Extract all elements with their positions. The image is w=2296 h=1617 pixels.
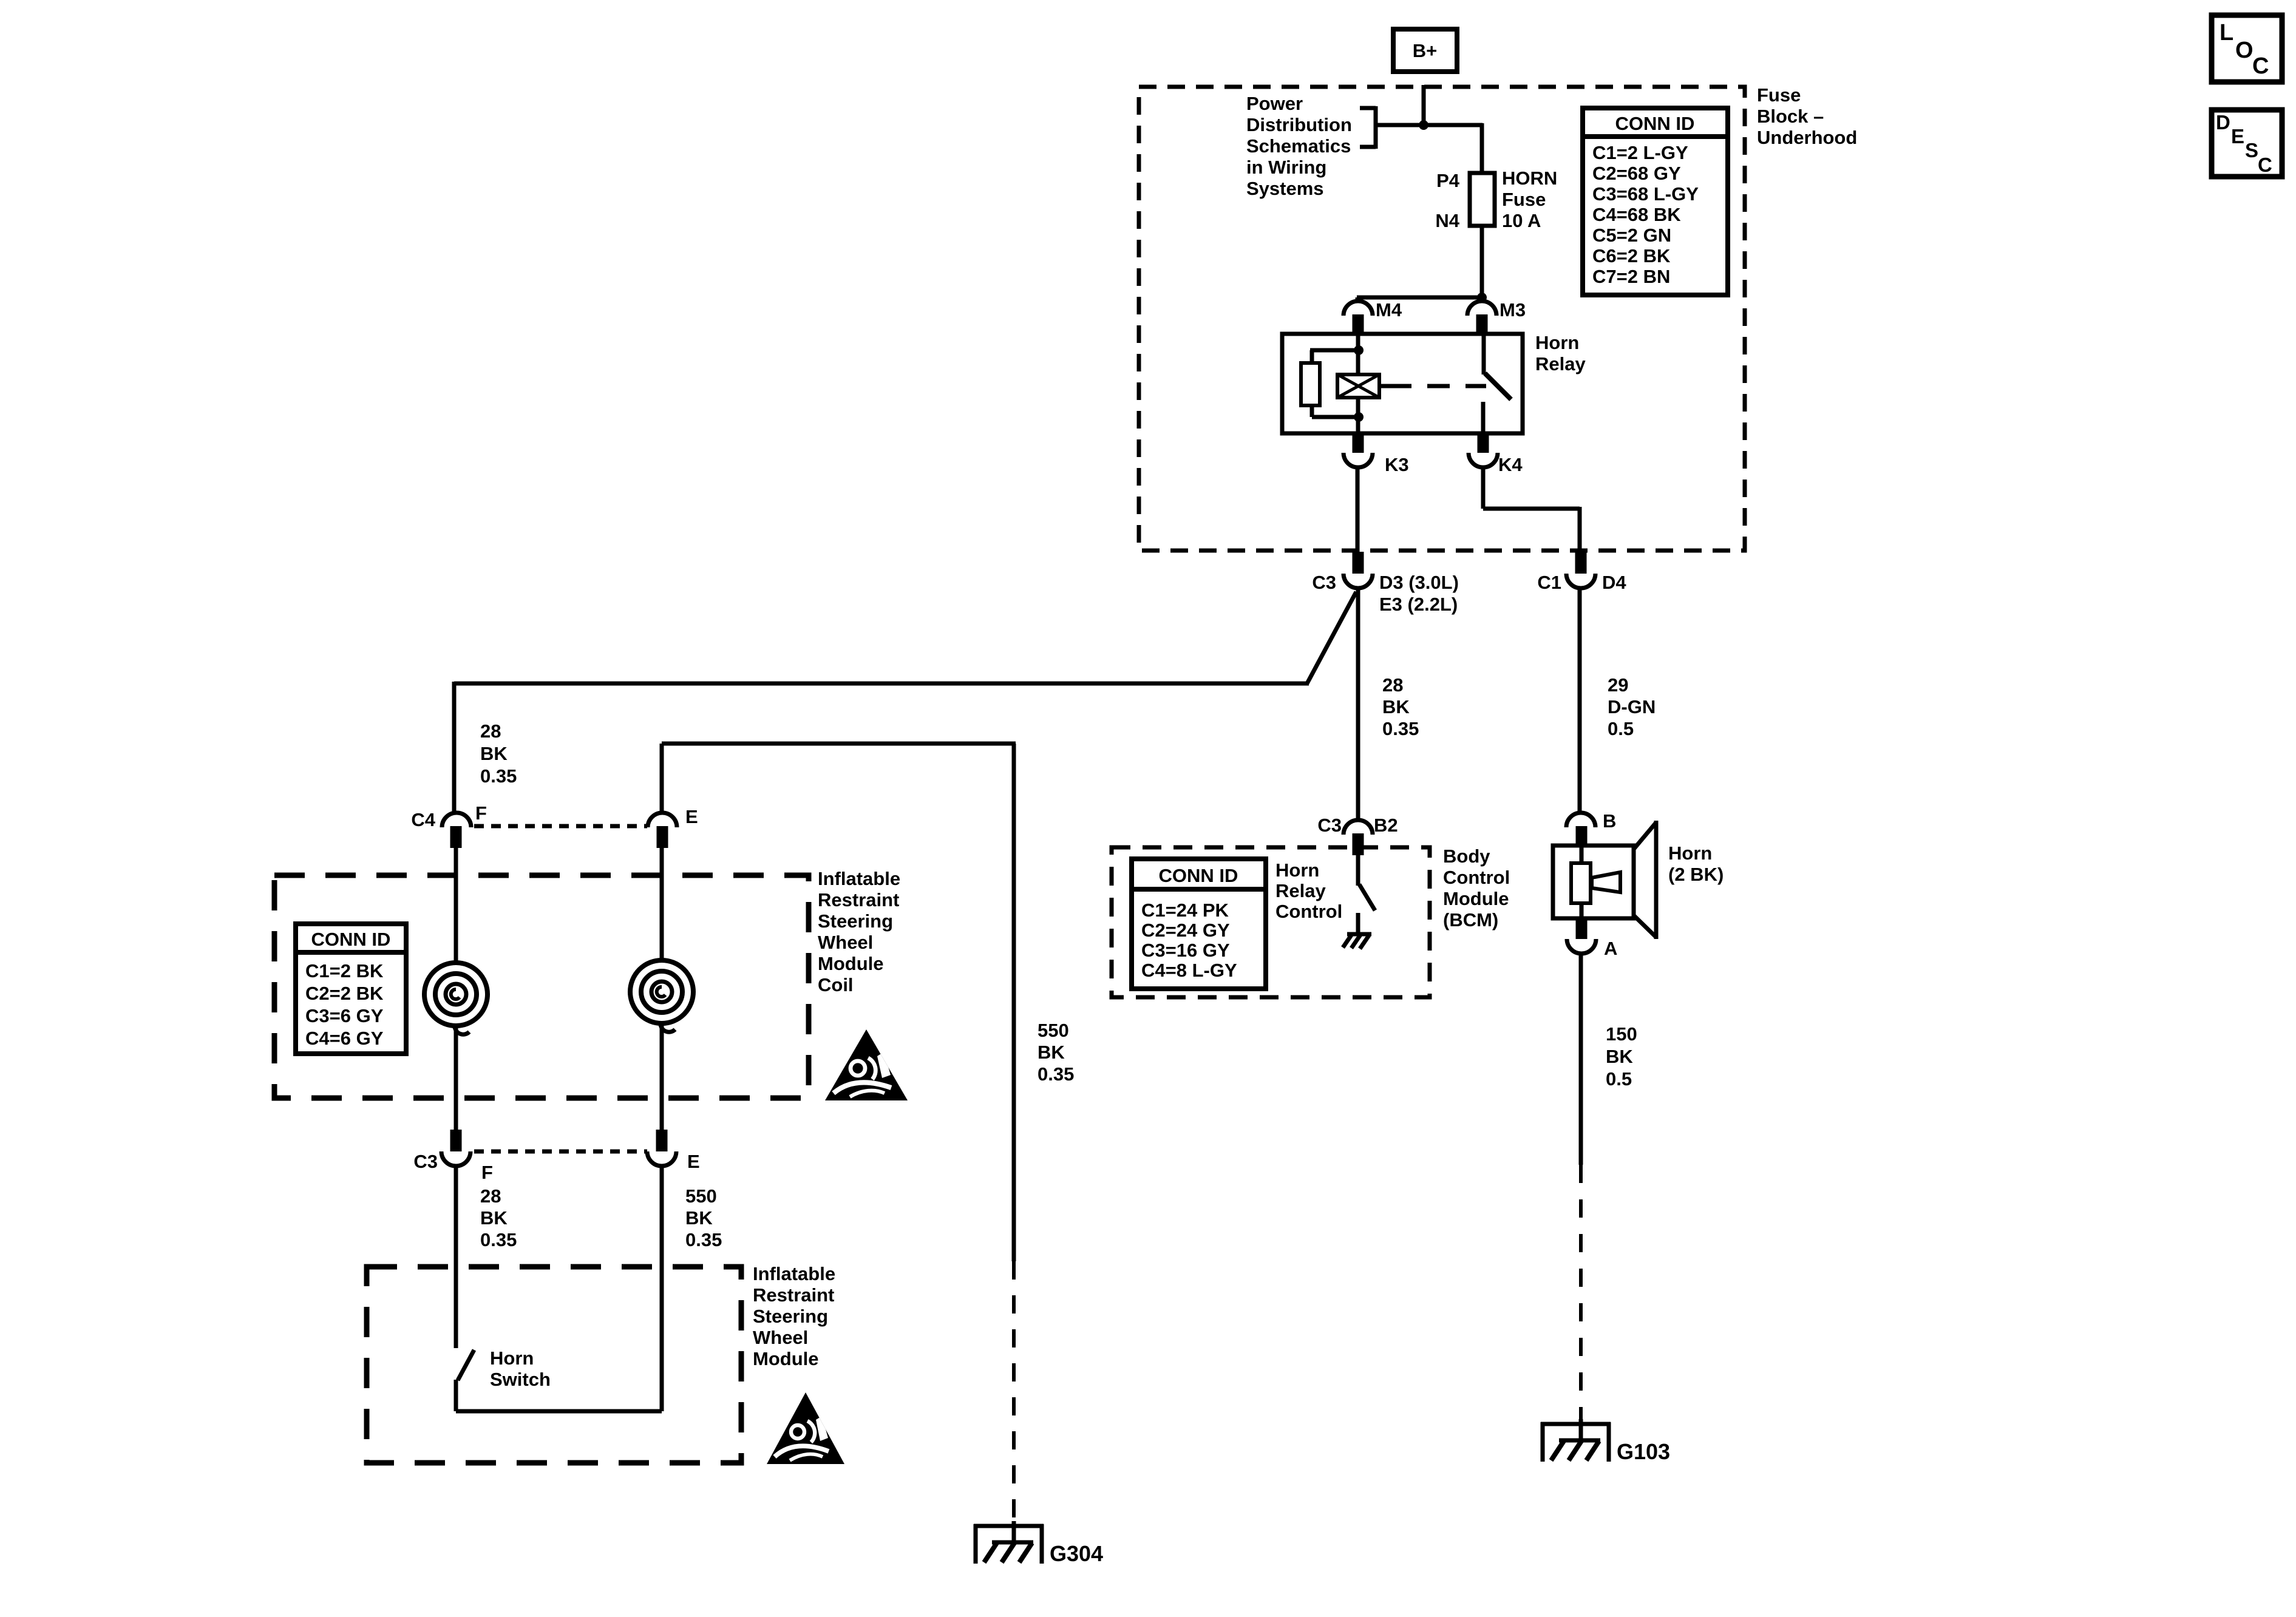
- svg-text:550: 550: [685, 1185, 717, 1207]
- connector M3: [1467, 299, 1526, 334]
- wire B+ to junction: [1422, 85, 1426, 125]
- svg-text:Relay: Relay: [1275, 880, 1326, 901]
- svg-text:A: A: [1604, 938, 1617, 959]
- svg-text:C3: C3: [1317, 815, 1342, 836]
- relay switch lower contact: [1481, 402, 1486, 433]
- ground G103: [1541, 1419, 1670, 1464]
- svg-text:E: E: [685, 806, 698, 827]
- connector C3 F (lower): [413, 1130, 493, 1183]
- svg-text:N4: N4: [1435, 210, 1459, 231]
- wire coil1 to lower F: [454, 1025, 458, 1130]
- svg-text:Systems: Systems: [1246, 178, 1324, 199]
- svg-text:Wheel: Wheel: [818, 932, 873, 953]
- svg-text:0.35: 0.35: [1038, 1063, 1074, 1085]
- coil spiral right: [630, 960, 693, 1032]
- relay box: [1282, 334, 1523, 433]
- wire K4 to C1: [1483, 467, 1580, 552]
- warning triangle module: [767, 1392, 844, 1464]
- svg-text:Inflatable: Inflatable: [818, 868, 900, 889]
- relay wire coil to K3: [1356, 396, 1360, 433]
- svg-text:0.5: 0.5: [1606, 1068, 1632, 1090]
- svg-text:28: 28: [480, 1185, 501, 1207]
- connector K4: [1469, 432, 1523, 475]
- svg-text:Control: Control: [1275, 901, 1342, 922]
- relay resistor: [1301, 363, 1320, 405]
- junction node under B+: [1419, 120, 1428, 130]
- svg-text:Fuse: Fuse: [1502, 189, 1546, 210]
- svg-text:C: C: [2258, 154, 2272, 176]
- svg-text:D: D: [2216, 111, 2230, 134]
- svg-text:28: 28: [1382, 674, 1403, 696]
- connector B at horn: [1566, 810, 1616, 847]
- svg-text:C4=68 BK: C4=68 BK: [1592, 204, 1681, 225]
- relay resistor branch top: [1310, 350, 1359, 364]
- connector E (top): [648, 806, 698, 848]
- svg-text:F: F: [481, 1162, 493, 1183]
- svg-text:0.35: 0.35: [685, 1229, 722, 1250]
- svg-text:BK: BK: [480, 743, 508, 764]
- connector C1 D4: [1537, 552, 1626, 593]
- relay switch blade: [1485, 373, 1511, 399]
- svg-text:Restraint: Restraint: [818, 889, 899, 910]
- wire C3 to BCM B2: [1356, 588, 1360, 820]
- svg-text:(BCM): (BCM): [1443, 909, 1498, 931]
- svg-text:Power: Power: [1246, 93, 1303, 114]
- connector A at horn: [1567, 918, 1617, 959]
- horn internal wire top: [1580, 846, 1584, 864]
- wire E to coil2: [660, 848, 664, 963]
- svg-text:Relay: Relay: [1535, 353, 1586, 375]
- bcm switch upper: [1356, 855, 1360, 886]
- svg-text:D4: D4: [1602, 572, 1626, 593]
- svg-text:BK: BK: [685, 1207, 713, 1229]
- svg-text:Wheel: Wheel: [753, 1327, 808, 1348]
- svg-text:(2 BK): (2 BK): [1668, 864, 1724, 885]
- svg-text:Underhood: Underhood: [1757, 127, 1857, 148]
- svg-text:G304: G304: [1050, 1541, 1103, 1566]
- wire 28 BK diagonal branch: [454, 592, 1356, 814]
- relay wire M4 to coil: [1356, 334, 1360, 376]
- svg-text:C1=2 BK: C1=2 BK: [305, 960, 384, 981]
- wire junction to fuse top: [1376, 123, 1483, 173]
- svg-text:P4: P4: [1436, 170, 1460, 191]
- svg-text:C2=68 GY: C2=68 GY: [1592, 163, 1681, 184]
- svg-text:150: 150: [1606, 1023, 1637, 1045]
- coil spiral left: [424, 963, 487, 1034]
- relay junction top: [1354, 345, 1364, 355]
- svg-text:C3=6 GY: C3=6 GY: [305, 1005, 384, 1026]
- svg-text:CONN ID: CONN ID: [311, 929, 391, 950]
- svg-text:C3=68 L-GY: C3=68 L-GY: [1592, 183, 1699, 205]
- steering wheel module coil dashed box: [274, 875, 809, 1098]
- fuse block underhood dashed box: [1139, 87, 1745, 551]
- wire branch to M4: [1357, 297, 1482, 302]
- svg-text:in Wiring: in Wiring: [1246, 157, 1326, 178]
- relay dashed actuator link: [1389, 384, 1486, 388]
- svg-text:Distribution: Distribution: [1246, 114, 1352, 135]
- svg-text:C2=24 GY: C2=24 GY: [1141, 920, 1230, 941]
- svg-text:Steering: Steering: [753, 1306, 828, 1327]
- horn internal resistor: [1571, 863, 1591, 903]
- relay junction bottom: [1354, 412, 1364, 422]
- svg-text:C3: C3: [1312, 572, 1336, 593]
- svg-text:Module: Module: [1443, 888, 1509, 909]
- svg-text:CONN ID: CONN ID: [1615, 113, 1695, 134]
- svg-text:K3: K3: [1385, 454, 1409, 475]
- relay switch fixed contact: [1482, 334, 1486, 375]
- relay resistor branch bottom: [1312, 404, 1359, 417]
- svg-text:28: 28: [480, 720, 501, 742]
- svg-text:O: O: [2235, 38, 2254, 63]
- relay coil: [1337, 375, 1379, 398]
- svg-text:M3: M3: [1500, 299, 1526, 320]
- svg-text:HORN: HORN: [1502, 168, 1557, 189]
- power node B+: [1393, 29, 1457, 72]
- svg-text:C5=2 GN: C5=2 GN: [1592, 225, 1671, 246]
- svg-text:Block –: Block –: [1757, 106, 1824, 127]
- svg-text:Inflatable: Inflatable: [753, 1263, 835, 1284]
- svg-text:Steering: Steering: [818, 910, 893, 932]
- bcm switch blade: [1359, 884, 1375, 910]
- dashed connector line F-E: [474, 824, 647, 829]
- svg-text:0.35: 0.35: [480, 1229, 517, 1250]
- legend box DESC: [2212, 110, 2282, 177]
- svg-text:10 A: 10 A: [1502, 210, 1541, 231]
- horn bell: [1634, 821, 1656, 939]
- svg-text:BK: BK: [1038, 1042, 1065, 1063]
- horn internal wire bottom: [1580, 902, 1584, 918]
- svg-text:C1: C1: [1537, 572, 1561, 593]
- svg-text:Horn: Horn: [490, 1347, 534, 1369]
- svg-text:C6=2 BK: C6=2 BK: [1592, 245, 1671, 266]
- relay actuator stub: [1379, 384, 1389, 388]
- svg-text:C4=6 GY: C4=6 GY: [305, 1028, 384, 1049]
- horn internal trumpet: [1592, 872, 1620, 892]
- svg-text:Restraint: Restraint: [753, 1284, 834, 1306]
- svg-text:F: F: [475, 802, 487, 824]
- horn body: [1553, 846, 1634, 918]
- warning triangle coil: [825, 1029, 908, 1100]
- svg-text:Body: Body: [1443, 846, 1490, 867]
- junction node below fuse: [1477, 293, 1487, 302]
- connector E (lower): [647, 1130, 700, 1172]
- horn switch blade: [458, 1350, 474, 1380]
- svg-text:G103: G103: [1617, 1439, 1670, 1464]
- svg-text:B2: B2: [1374, 815, 1398, 836]
- svg-text:Horn: Horn: [1668, 842, 1712, 864]
- wire fuse to junction 2: [1480, 226, 1484, 297]
- svg-text:BK: BK: [1382, 696, 1410, 717]
- svg-text:C1=24 PK: C1=24 PK: [1141, 900, 1229, 921]
- wire 150 BK to G103: [1579, 954, 1583, 1420]
- fuse HORN 10A: [1470, 173, 1495, 226]
- conn id table coil: [296, 924, 406, 1054]
- wire C1 to horn B: [1578, 588, 1582, 814]
- svg-text:Horn: Horn: [1535, 332, 1579, 353]
- wire 550 BK to G304: [1012, 744, 1016, 1522]
- wire E to ground run: [662, 744, 1016, 813]
- svg-text:D-GN: D-GN: [1608, 696, 1656, 717]
- svg-text:CONN ID: CONN ID: [1159, 865, 1238, 886]
- connector C4 F: [411, 802, 487, 848]
- svg-text:Control: Control: [1443, 867, 1510, 888]
- conn id table BCM: [1132, 859, 1266, 989]
- svg-text:Fuse: Fuse: [1757, 84, 1801, 106]
- connector M4: [1343, 299, 1402, 334]
- svg-text:S: S: [2245, 139, 2258, 161]
- svg-text:0.35: 0.35: [1382, 718, 1419, 739]
- svg-text:E: E: [2231, 125, 2244, 147]
- svg-text:E: E: [687, 1151, 700, 1172]
- svg-text:C2=2 BK: C2=2 BK: [305, 983, 384, 1004]
- dashed connector line F-E lower: [474, 1150, 647, 1154]
- wire junction2 to M3: [1480, 297, 1484, 302]
- connector B2 at BCM: [1317, 815, 1398, 855]
- svg-text:Horn: Horn: [1275, 859, 1319, 881]
- svg-text:0.5: 0.5: [1608, 718, 1634, 739]
- svg-text:Schematics: Schematics: [1246, 135, 1351, 157]
- svg-text:D3 (3.0L): D3 (3.0L): [1379, 572, 1459, 593]
- svg-text:B: B: [1603, 810, 1616, 832]
- svg-text:0.35: 0.35: [480, 765, 517, 787]
- steering wheel module dashed box: [367, 1267, 741, 1463]
- wire lower C3 to switch: [454, 1166, 458, 1348]
- wire F to coil: [454, 848, 458, 965]
- svg-text:Module: Module: [818, 953, 884, 974]
- svg-text:C: C: [2252, 53, 2269, 79]
- svg-text:E3 (2.2L): E3 (2.2L): [1379, 594, 1458, 615]
- svg-text:550: 550: [1038, 1020, 1069, 1041]
- svg-text:C7=2 BN: C7=2 BN: [1592, 266, 1670, 287]
- svg-text:L: L: [2220, 20, 2233, 46]
- svg-text:M4: M4: [1376, 299, 1402, 320]
- svg-text:BK: BK: [1606, 1046, 1633, 1067]
- wire K3 to C3: [1356, 467, 1360, 552]
- svg-text:BK: BK: [480, 1207, 508, 1229]
- ground G304: [974, 1521, 1103, 1566]
- svg-text:C4: C4: [411, 809, 435, 830]
- horn switch: [456, 1166, 662, 1411]
- svg-text:Switch: Switch: [490, 1369, 551, 1390]
- wire coil2 to lower E: [660, 1022, 664, 1130]
- svg-text:C4=8 L-GY: C4=8 L-GY: [1141, 960, 1237, 981]
- connector K3: [1343, 432, 1409, 475]
- body control module dashed box: [1112, 847, 1430, 997]
- conn id table fuse block: [1583, 108, 1728, 295]
- svg-text:Module: Module: [753, 1348, 819, 1369]
- svg-text:29: 29: [1608, 674, 1628, 696]
- bcm internal ground: [1343, 934, 1371, 949]
- svg-text:K4: K4: [1498, 454, 1523, 475]
- svg-text:C1=2 L-GY: C1=2 L-GY: [1592, 142, 1688, 163]
- svg-text:Coil: Coil: [818, 974, 854, 995]
- svg-text:C3=16 GY: C3=16 GY: [1141, 940, 1230, 961]
- bcm switch lower: [1356, 913, 1360, 934]
- svg-text:C3: C3: [413, 1151, 438, 1172]
- legend box LOC: [2212, 15, 2282, 82]
- svg-text:B+: B+: [1413, 40, 1438, 61]
- connector C3 D3: [1312, 552, 1459, 615]
- power distribution reference bracket: [1360, 106, 1376, 149]
